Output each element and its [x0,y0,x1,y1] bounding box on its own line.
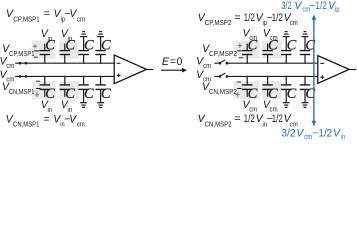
svg-text:CP,MSP2: CP,MSP2 [205,18,232,27]
svg-text:CN,MSP1: CN,MSP1 [9,87,35,96]
svg-text:C: C [287,86,297,102]
svg-text:cm: cm [77,120,85,129]
svg-text:CP,MSP1: CP,MSP1 [13,15,39,24]
svg-text:ip: ip [48,34,53,43]
svg-text:1/2: 1/2 [272,12,283,24]
svg-text:CN,MSP2: CN,MSP2 [205,120,232,129]
svg-text:V: V [296,127,304,139]
svg-text:=: = [234,113,240,125]
svg-text:CN,MSP1: CN,MSP1 [13,120,39,129]
svg-text:C: C [287,37,297,53]
svg-text:cm: cm [77,15,85,24]
svg-text:V: V [294,0,302,12]
svg-text:1/2: 1/2 [319,127,333,139]
svg-text:cm: cm [304,132,312,141]
svg-text:CN,MSP2: CN,MSP2 [209,87,237,96]
svg-text:in: in [341,132,345,141]
svg-text:1/2: 1/2 [244,12,255,24]
svg-text:cm: cm [6,61,14,70]
svg-text:C: C [84,37,94,53]
svg-text:V: V [333,127,341,139]
svg-text:cm: cm [270,33,278,42]
svg-text:C: C [101,86,111,102]
svg-text:=: = [170,56,176,68]
svg-text:cm: cm [290,18,298,27]
svg-text:cm: cm [203,61,211,70]
svg-text:1/2: 1/2 [315,0,326,12]
svg-text:−: − [309,0,315,12]
svg-text:ip: ip [68,34,73,43]
svg-text:=: = [43,113,49,125]
svg-text:CP,MSP1: CP,MSP1 [9,49,35,58]
svg-text:=: = [44,8,50,20]
svg-text:cm: cm [249,33,257,42]
svg-text:E: E [162,56,170,68]
svg-text:1/2: 1/2 [272,113,283,125]
svg-text:=: = [234,12,240,24]
svg-text:ip: ip [335,4,340,13]
svg-text:3/2: 3/2 [281,127,295,139]
svg-text:C: C [101,37,111,53]
svg-text:3/2: 3/2 [281,0,292,12]
svg-text:0: 0 [177,56,183,68]
svg-text:1/2: 1/2 [244,113,255,125]
svg-text:C: C [84,86,94,102]
svg-text:CP,MSP2: CP,MSP2 [209,49,237,58]
